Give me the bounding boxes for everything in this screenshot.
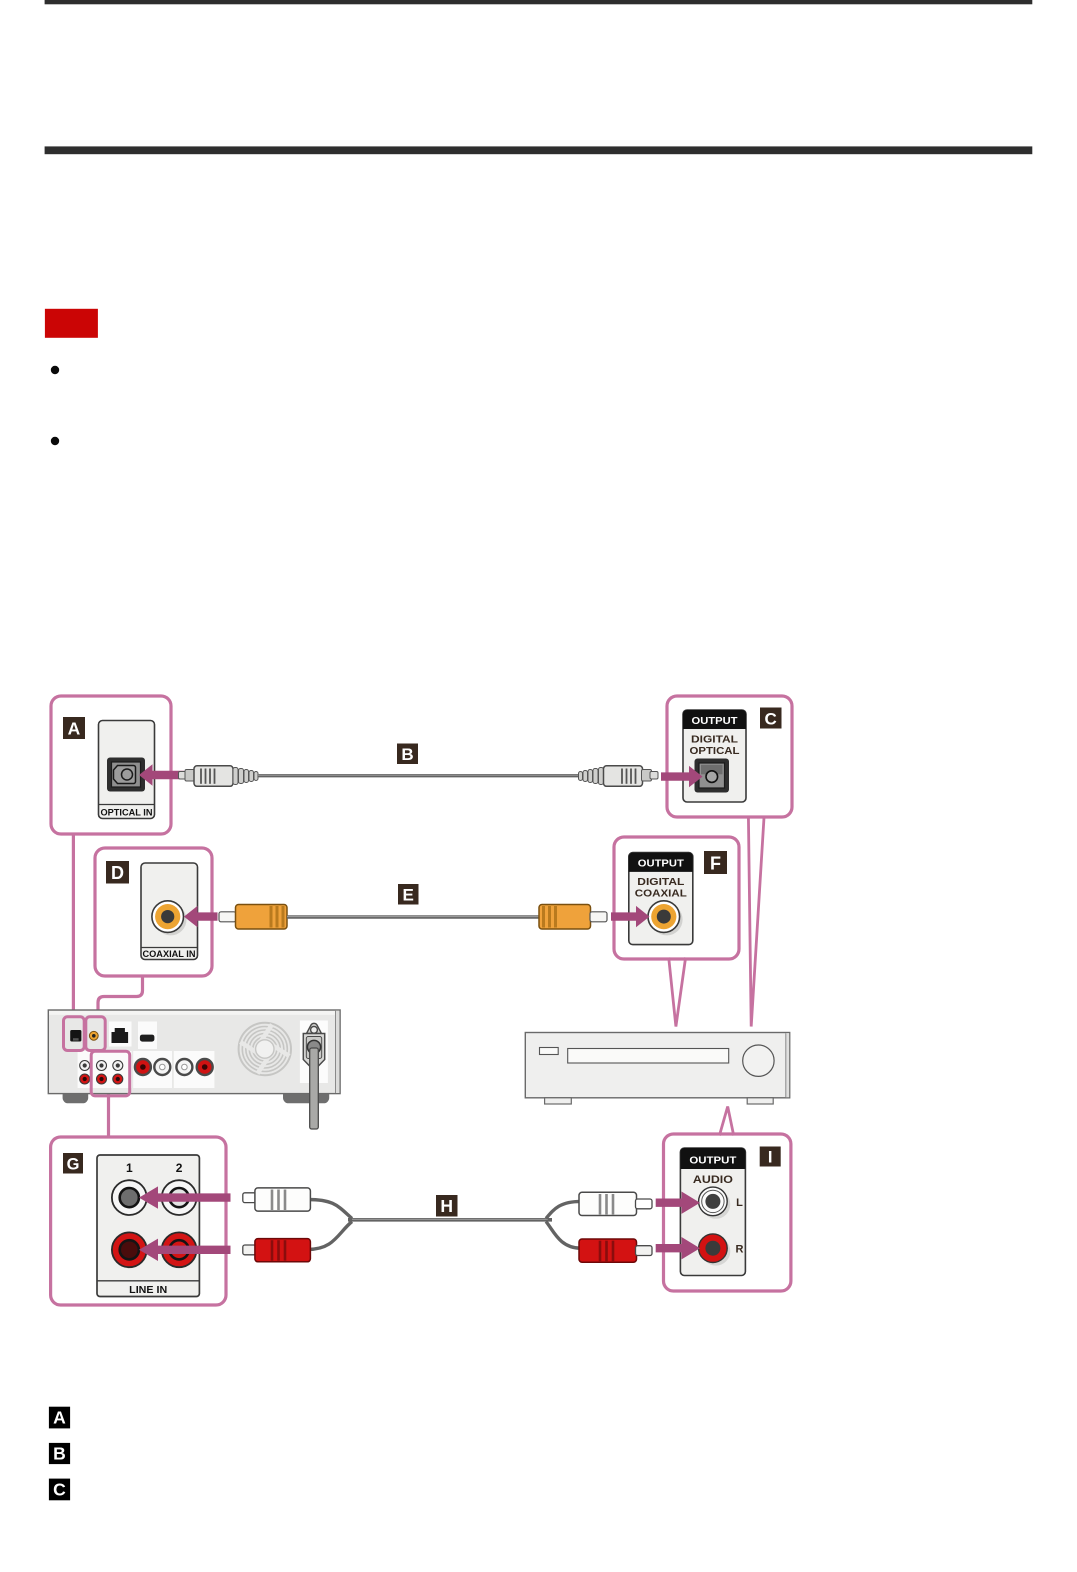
svg-text:I: I — [768, 1149, 773, 1167]
svg-text:A: A — [68, 719, 81, 739]
callout tail from box D down to amplifier coaxial jack — [98, 974, 143, 1018]
amplifier power cord — [310, 1048, 319, 1129]
callout box C (OUTPUT DIGITAL OPTICAL) — [667, 696, 792, 817]
svg-text:C: C — [53, 1480, 66, 1500]
optical cable plug (right) — [579, 766, 659, 787]
audio cable right white branch — [546, 1201, 581, 1218]
callout tail from box A down to amplifier optical jack — [72, 832, 75, 1018]
svg-text:2: 2 — [176, 1161, 183, 1175]
line-in jack 1 R (red) — [112, 1232, 147, 1267]
callout box I (OUTPUT AUDIO) — [664, 1134, 791, 1291]
label A — [63, 717, 85, 739]
digital coaxial output jack — [651, 904, 683, 936]
svg-text:B: B — [53, 1444, 66, 1464]
line-in jack panel — [97, 1155, 199, 1297]
svg-text:AUDIO: AUDIO — [693, 1174, 733, 1186]
svg-text:DIGITAL: DIGITAL — [637, 876, 685, 888]
bullet 2 — [51, 437, 59, 445]
optical cable B — [258, 774, 581, 777]
amplifier small rca jack field — [78, 1051, 132, 1088]
white rca plug (left) — [243, 1188, 311, 1211]
callout box F (OUTPUT DIGITAL COAXIAL) — [614, 837, 739, 959]
label I — [760, 1147, 781, 1167]
amplifier network jack — [109, 1022, 132, 1047]
audio cable H trunk — [348, 1218, 552, 1222]
player display — [540, 1048, 559, 1055]
coaxial cable E — [287, 915, 539, 918]
svg-text:COAXIAL IN: COAXIAL IN — [143, 949, 196, 960]
label H — [436, 1195, 458, 1217]
svg-text:A: A — [53, 1408, 66, 1428]
callout tail from box G highlight down to box G — [107, 1094, 110, 1139]
svg-text:R: R — [736, 1244, 744, 1256]
callout tail from box I up to player — [719, 1107, 733, 1136]
red rca plug (left) — [243, 1239, 311, 1262]
line-in jack 2 L (white) — [162, 1180, 197, 1215]
audio cable left red branch — [308, 1222, 352, 1250]
svg-text:LINE IN: LINE IN — [129, 1284, 167, 1296]
svg-text:G: G — [67, 1155, 80, 1173]
player knob — [743, 1045, 774, 1076]
svg-text:B: B — [401, 745, 413, 764]
amplifier optical jack highlight — [64, 1017, 85, 1051]
arrow into audio output jack R — [656, 1237, 700, 1259]
label B — [397, 744, 418, 765]
svg-text:C: C — [765, 709, 777, 728]
label F — [704, 851, 727, 874]
player body — [525, 1033, 789, 1098]
svg-text:1: 1 — [126, 1161, 133, 1175]
svg-text:DIGITAL: DIGITAL — [691, 734, 739, 746]
amplifier fan — [239, 1023, 291, 1075]
svg-text:D: D — [111, 863, 124, 883]
digital optical output panel — [683, 710, 746, 802]
amplifier coaxial jack highlight — [86, 1017, 105, 1051]
audio output jack L (white) — [702, 1190, 731, 1219]
label E — [398, 884, 419, 905]
callout box D (COAXIAL IN) — [95, 848, 212, 976]
coaxial cable plug (left) — [219, 905, 287, 930]
coaxial-in jack panel — [141, 863, 198, 960]
svg-text:COAXIAL: COAXIAL — [635, 888, 688, 900]
player feet — [545, 1098, 572, 1104]
svg-text:L: L — [736, 1197, 743, 1209]
arrow into coaxial-in jack — [184, 906, 218, 927]
bottom list marker C — [49, 1479, 70, 1501]
white rca plug (right) — [579, 1192, 652, 1215]
amplifier left foot — [63, 1094, 89, 1104]
optical-in jack panel — [99, 721, 155, 819]
svg-text:OPTICAL: OPTICAL — [690, 745, 741, 757]
optical cable plug (left) — [179, 766, 259, 787]
audio cable right red branch — [546, 1222, 581, 1249]
bullet 1 — [51, 366, 59, 374]
amplifier coaxial-in jack — [89, 1031, 98, 1040]
audio output jack R (red) — [702, 1237, 731, 1266]
arrow into digital optical output jack — [661, 766, 703, 787]
svg-text:F: F — [710, 853, 721, 873]
arrow into digital coaxial output jack — [611, 906, 650, 927]
line-in jack 1 L (white) — [112, 1180, 147, 1215]
amplifier optical-in jack — [70, 1030, 81, 1042]
svg-text:H: H — [440, 1196, 453, 1216]
audio cable left white branch — [308, 1200, 352, 1219]
arrow into line-in jack 1 L — [139, 1186, 231, 1208]
audio output panel — [680, 1148, 745, 1276]
label G — [63, 1153, 83, 1174]
amplifier rear panel body — [48, 1010, 340, 1094]
callout tail from box C down to player — [748, 816, 764, 1027]
player disc slot — [568, 1049, 729, 1064]
amplifier large rca jack field — [133, 1051, 172, 1088]
section divider bar — [45, 146, 1033, 154]
amplifier usb port — [138, 1022, 157, 1050]
amplifier ac inlet — [300, 1021, 328, 1084]
callout box G (LINE IN) — [51, 1137, 226, 1305]
coaxial cable plug (right) — [539, 905, 607, 930]
note icon (red) — [45, 309, 98, 338]
bottom list marker A — [49, 1407, 70, 1429]
svg-text:E: E — [403, 886, 414, 905]
digital coaxial output panel — [629, 853, 693, 945]
line-in jack 2 R (red) — [162, 1232, 197, 1267]
optical-in jack icon — [107, 758, 145, 792]
arrow into audio output jack L — [656, 1192, 700, 1214]
svg-text:OUTPUT: OUTPUT — [689, 1155, 737, 1167]
svg-text:OUTPUT: OUTPUT — [692, 716, 738, 727]
svg-text:OPTICAL IN: OPTICAL IN — [101, 808, 153, 819]
label D — [106, 861, 129, 884]
coaxial-in jack — [155, 904, 187, 936]
amplifier line-in jacks highlight — [91, 1051, 130, 1096]
svg-text:OUTPUT: OUTPUT — [638, 859, 684, 870]
top page bar — [45, 0, 1033, 4]
amplifier right foot — [283, 1094, 329, 1104]
label C — [760, 708, 782, 729]
arrow into line-in jack 1 R — [139, 1239, 231, 1261]
bottom list marker B — [49, 1443, 70, 1464]
digital optical output jack icon — [695, 759, 730, 793]
arrow into optical-in jack — [139, 764, 184, 785]
callout box A (OPTICAL IN) — [51, 696, 171, 834]
callout tail from box F down to player — [669, 958, 686, 1027]
red rca plug (right) — [579, 1239, 652, 1262]
